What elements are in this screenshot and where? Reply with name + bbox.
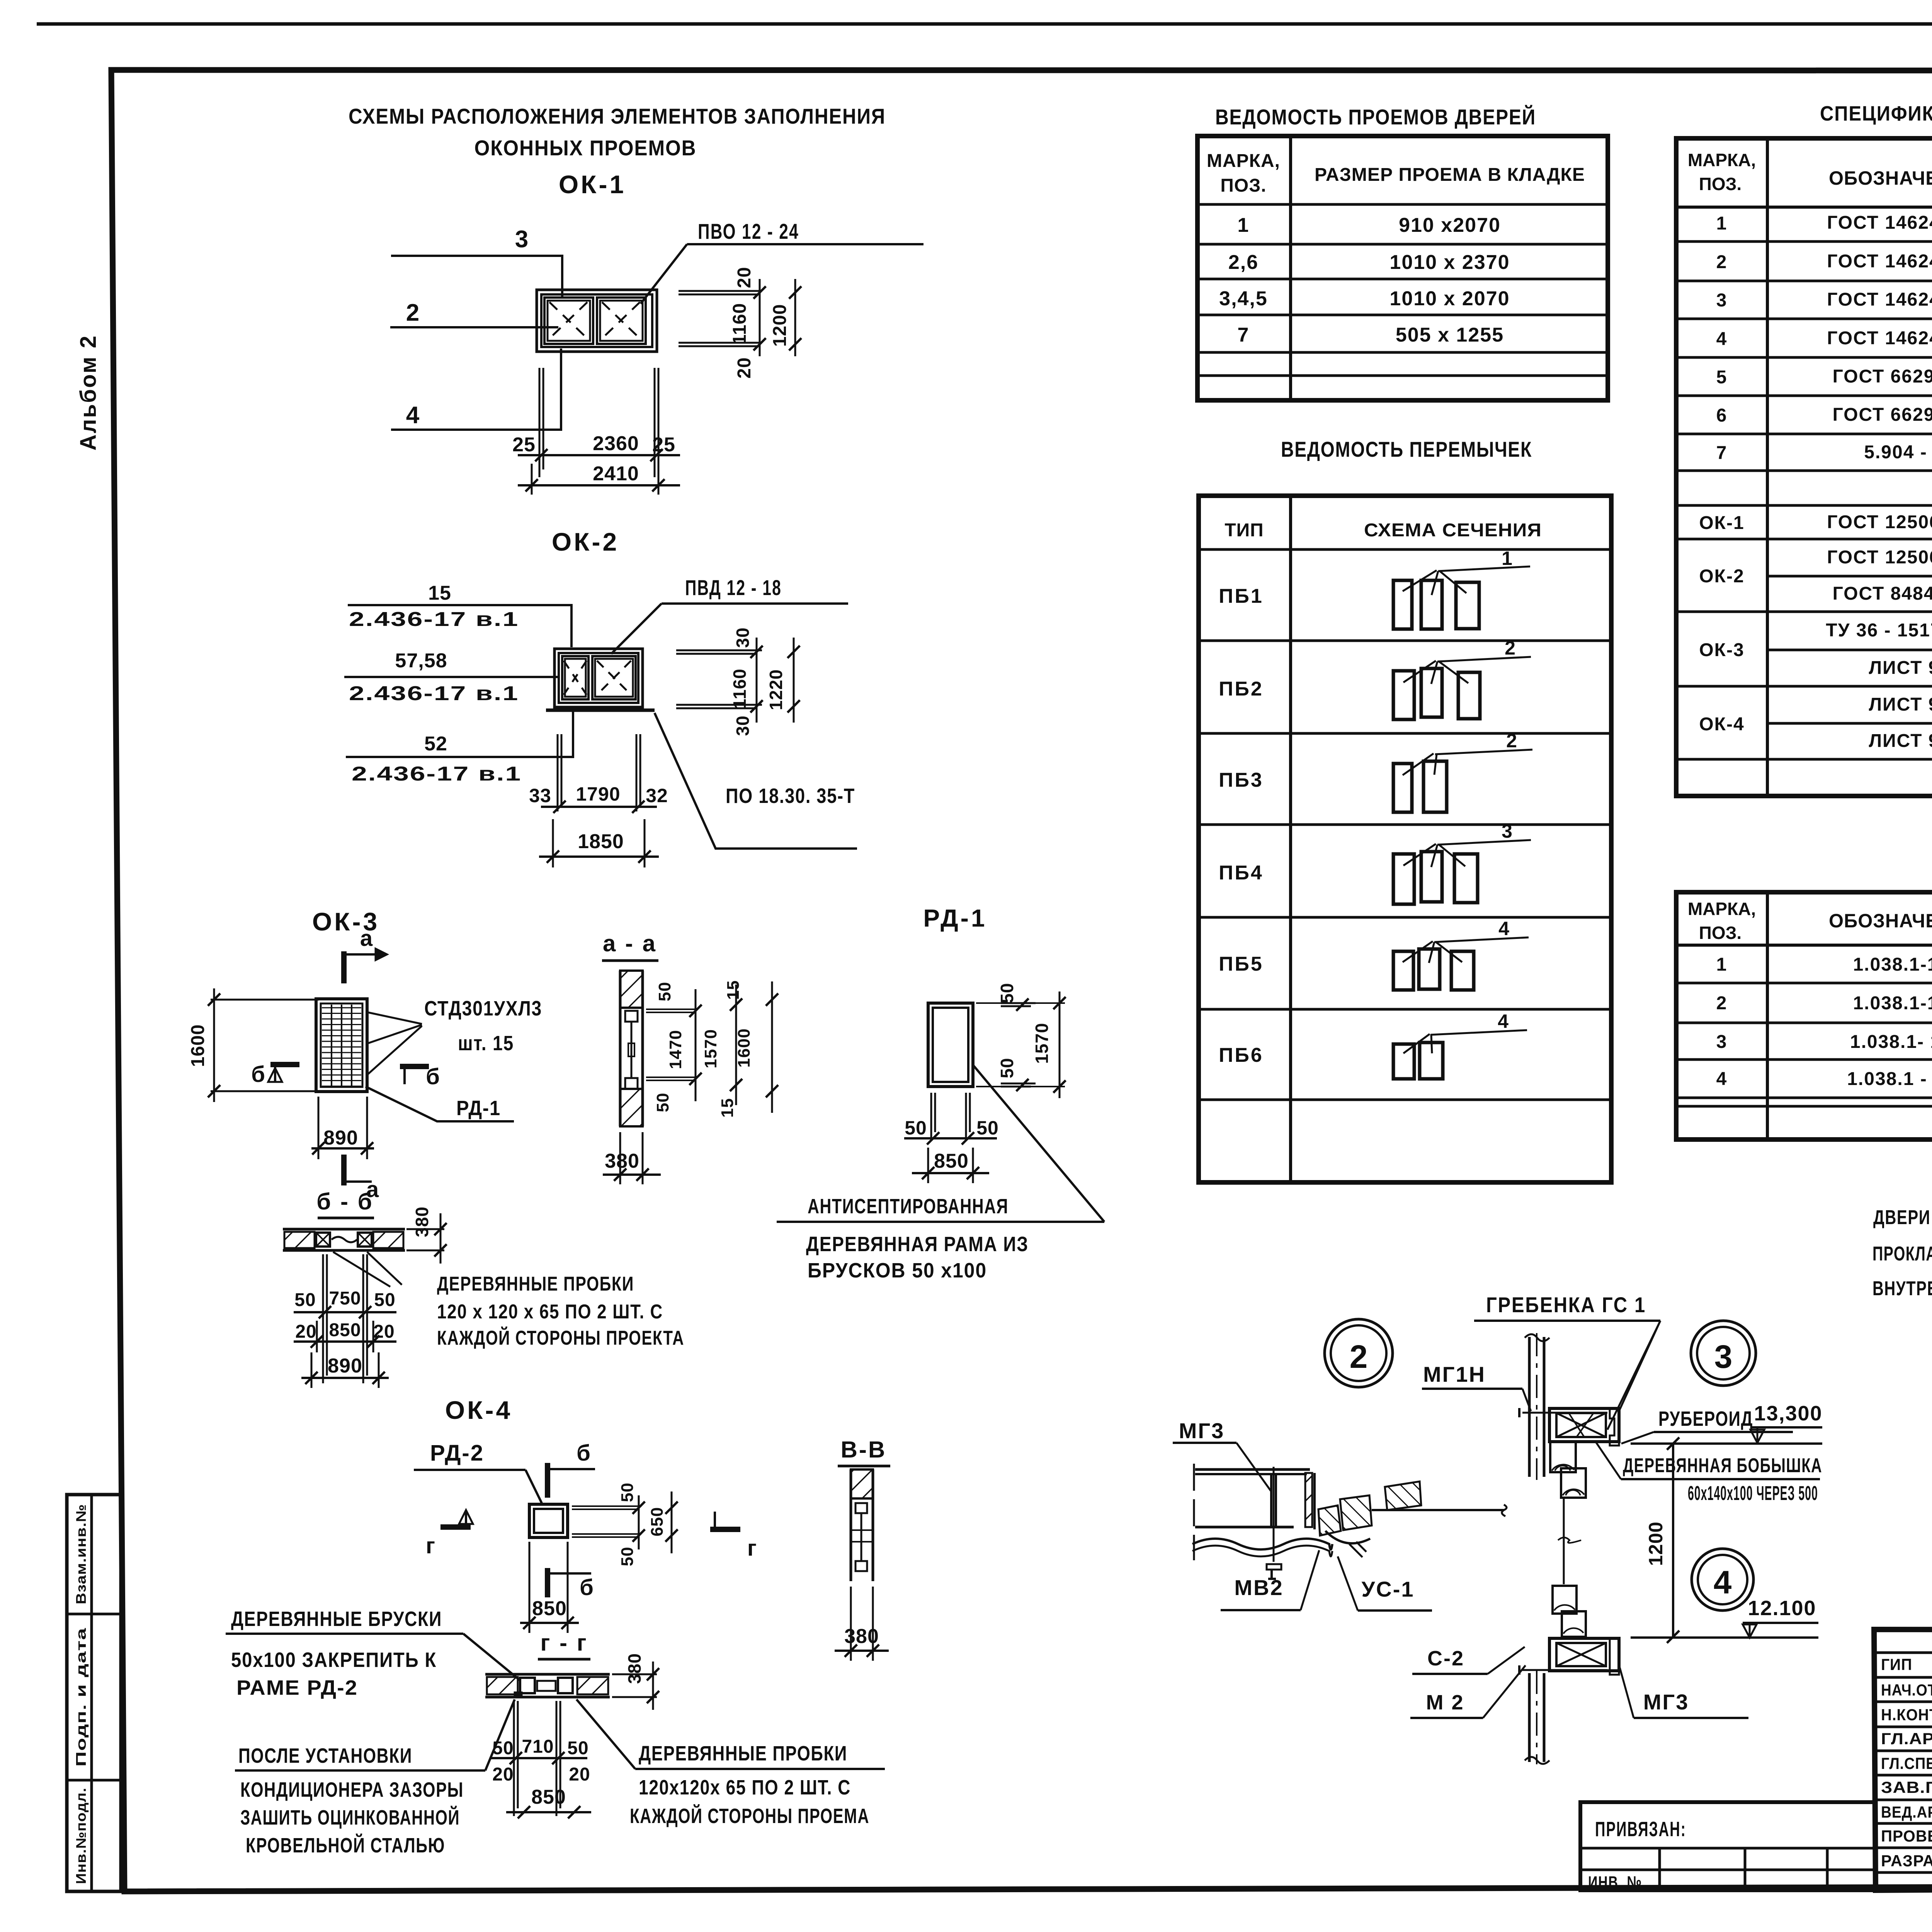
- table: vedomost peremychek: [1199, 496, 1611, 1182]
- svg-text:850: 850: [329, 1320, 361, 1340]
- svg-text:ГОСТ 14624 - 84: ГОСТ 14624 - 84: [1827, 213, 1932, 233]
- svg-text:7: 7: [1716, 443, 1728, 463]
- detail circle 2: [1325, 1319, 1393, 1387]
- svg-text:50: 50: [653, 1093, 672, 1112]
- svg-text:15: 15: [724, 980, 743, 1000]
- svg-text:ИНВ. №: ИНВ. №: [1588, 1873, 1642, 1892]
- svg-text:РУБЕРОИД: РУБЕРОИД: [1658, 1407, 1753, 1430]
- svg-text:КАЖДОЙ СТОРОНЫ ПРОЕМА: КАЖДОЙ СТОРОНЫ ПРОЕМА: [630, 1804, 869, 1828]
- svg-text:2410: 2410: [593, 463, 639, 485]
- dimension 890 below grate: [311, 1097, 374, 1159]
- svg-text:50: 50: [294, 1290, 316, 1310]
- label M2: [1410, 1665, 1526, 1718]
- label S-2: [1412, 1647, 1525, 1674]
- section mark b top (OK-4): [548, 1440, 595, 1498]
- label derevyannaya bobyshka: [1596, 1442, 1822, 1505]
- svg-text:3: 3: [1716, 1032, 1728, 1052]
- svg-text:б: б: [251, 1062, 265, 1087]
- svg-text:ВЕДОМОСТЬ ПЕРЕМЫЧЕК: ВЕДОМОСТЬ ПЕРЕМЫЧЕК: [1281, 437, 1532, 461]
- window OK-2 frame: [546, 649, 655, 710]
- svg-text:ОК-1: ОК-1: [1699, 513, 1744, 533]
- svg-text:380: 380: [624, 1653, 645, 1684]
- svg-text:50: 50: [567, 1738, 588, 1759]
- svg-text:20: 20: [734, 357, 755, 378]
- louvre grate OK-3 plan: [316, 999, 367, 1092]
- leader 2: [390, 299, 558, 327]
- section mark b (left): [251, 1062, 299, 1087]
- svg-text:Взам.инв.№: Взам.инв.№: [73, 1504, 89, 1604]
- svg-text:СТД301УХЛ3: СТД301УХЛ3: [424, 997, 542, 1020]
- svg-text:ПБ5: ПБ5: [1219, 953, 1264, 975]
- svg-text:ДЕРЕВЯННЫЕ БРУСКИ: ДЕРЕВЯННЫЕ БРУСКИ: [231, 1607, 442, 1631]
- section b-b drawing: [283, 1229, 405, 1250]
- svg-text:890: 890: [323, 1127, 358, 1149]
- svg-text:1200: 1200: [770, 304, 790, 347]
- svg-text:ГОСТ 14624 - 84: ГОСТ 14624 - 84: [1827, 328, 1932, 349]
- notes wooden bars (left texts): [226, 1607, 520, 1699]
- note about doors pos.5: [1872, 1206, 1932, 1300]
- scheme PB6: [1393, 1010, 1527, 1079]
- svg-text:60х140х100 ЧЕРЕЗ 500: 60х140х100 ЧЕРЕЗ 500: [1688, 1482, 1818, 1505]
- svg-text:ТИП: ТИП: [1225, 520, 1264, 541]
- scheme PB5: [1393, 918, 1529, 990]
- dimension 380 (g-g): [612, 1653, 659, 1710]
- section mark g left: [426, 1510, 473, 1558]
- left stamp boxes: [67, 1495, 121, 1891]
- svg-text:1.038.1- 1.1: 1.038.1- 1.1: [1850, 1032, 1932, 1052]
- svg-text:380: 380: [605, 1150, 639, 1172]
- svg-text:ДВЕРИ ПОЗ. 5 (ДЛЯ ЭЛЕКТРОП: ДВЕРИ ПОЗ. 5 (ДЛЯ ЭЛЕКТРОПОМЕЩЕНИЯ ) ВЫП…: [1873, 1206, 1932, 1229]
- svg-text:ДЕРЕВЯННЫЕ ПРОБКИ: ДЕРЕВЯННЫЕ ПРОБКИ: [437, 1273, 634, 1295]
- svg-text:МАРКА,: МАРКА,: [1688, 899, 1756, 919]
- svg-text:380: 380: [412, 1206, 432, 1237]
- svg-text:г - г: г - г: [540, 1630, 588, 1656]
- svg-text:12.100: 12.100: [1748, 1597, 1816, 1620]
- svg-text:ВЕД.АРХ.: ВЕД.АРХ.: [1881, 1803, 1932, 1821]
- svg-text:2360: 2360: [593, 432, 639, 455]
- svg-text:2: 2: [1350, 1338, 1368, 1375]
- svg-text:б - б: б - б: [316, 1189, 373, 1214]
- dimensions 50/710/50 20/20 850 below g-g: [491, 1701, 591, 1818]
- section mark a (top): [344, 926, 389, 983]
- detail circle 3: [1691, 1321, 1756, 1386]
- svg-text:РД-1: РД-1: [456, 1097, 501, 1120]
- svg-text:2: 2: [1716, 993, 1728, 1014]
- svg-text:МГ3: МГ3: [1643, 1690, 1689, 1714]
- RD-1 dimensions 50/1570/50: [976, 983, 1066, 1098]
- svg-text:ЗАВ.ГР.: ЗАВ.ГР.: [1881, 1778, 1932, 1796]
- svg-text:15: 15: [428, 582, 451, 604]
- bar cross-section square (OK-4): [529, 1504, 568, 1537]
- scheme PB3: [1393, 730, 1532, 812]
- svg-text:ЛИСТ 9: ЛИСТ 9: [1869, 694, 1932, 715]
- svg-text:1470: 1470: [666, 1030, 685, 1069]
- table: specifikaciya elementov: [1676, 138, 1932, 796]
- dimension 1200 (details): [1645, 1437, 1679, 1643]
- svg-text:120х120х 65 ПО 2 ШТ. С: 120х120х 65 ПО 2 ШТ. С: [639, 1776, 851, 1799]
- note after installation (left texts): [235, 1699, 515, 1857]
- svg-text:РД-1: РД-1: [923, 904, 987, 932]
- label RD-1 leader: [366, 1087, 514, 1121]
- svg-text:ПБ1: ПБ1: [1219, 585, 1264, 607]
- svg-text:1790: 1790: [576, 783, 620, 805]
- svg-text:3: 3: [1714, 1338, 1733, 1375]
- svg-text:ОБОЗНАЧЕНИЕ: ОБОЗНАЧЕНИЕ: [1829, 167, 1932, 189]
- elevation 12.100: [1631, 1597, 1818, 1638]
- a-a dimensions 50/15/1470/1570/1600: [646, 980, 778, 1118]
- svg-text:С-2: С-2: [1427, 1647, 1464, 1670]
- svg-text:50: 50: [997, 1058, 1017, 1078]
- OK-4 right dimensions 50/650/50: [572, 1483, 678, 1566]
- svg-text:850: 850: [934, 1150, 969, 1172]
- svg-text:1600: 1600: [735, 1028, 753, 1068]
- svg-text:ГЛ.СПЕЦ.: ГЛ.СПЕЦ.: [1881, 1754, 1932, 1772]
- svg-text:2.436-17 в.1: 2.436-17 в.1: [349, 608, 519, 631]
- svg-text:50: 50: [492, 1738, 514, 1759]
- svg-text:2: 2: [1505, 637, 1515, 659]
- svg-text:52: 52: [424, 733, 447, 755]
- elevation 13,300: [1631, 1402, 1823, 1444]
- svg-text:2.436-17 в.1: 2.436-17 в.1: [349, 682, 519, 705]
- svg-text:ОК-2: ОК-2: [552, 527, 619, 556]
- svg-text:ПО 18.30. 35-Т: ПО 18.30. 35-Т: [726, 784, 855, 808]
- svg-text:ПБ2: ПБ2: [1219, 678, 1264, 700]
- svg-text:ПРОВЕР.: ПРОВЕР.: [1881, 1827, 1932, 1845]
- svg-text:3: 3: [1716, 290, 1728, 311]
- svg-text:1010 х 2370: 1010 х 2370: [1389, 251, 1510, 274]
- svg-text:б: б: [580, 1575, 594, 1600]
- svg-text:ПРИВЯЗАН:: ПРИВЯЗАН:: [1595, 1818, 1686, 1841]
- svg-text:МВ2: МВ2: [1234, 1575, 1283, 1600]
- svg-text:а: а: [360, 926, 373, 951]
- svg-text:1850: 1850: [578, 830, 624, 853]
- svg-text:РАМЕ РД-2: РАМЕ РД-2: [236, 1676, 358, 1699]
- note wooden plugs (right texts): [577, 1699, 885, 1828]
- leader 3: [391, 226, 562, 297]
- svg-text:5.904 - 4: 5.904 - 4: [1864, 442, 1932, 463]
- svg-text:ГОСТ 14624 - 84: ГОСТ 14624 - 84: [1827, 251, 1932, 272]
- svg-text:15: 15: [718, 1098, 737, 1118]
- note wooden plugs (b-b): [333, 1252, 684, 1349]
- svg-text:г: г: [747, 1536, 757, 1561]
- svg-text:57,58: 57,58: [395, 650, 447, 672]
- svg-text:4: 4: [1716, 1069, 1728, 1089]
- svg-text:РАЗМЕР ПРОЕМА В КЛАДКЕ: РАЗМЕР ПРОЕМА В КЛАДКЕ: [1315, 165, 1585, 185]
- svg-text:УС-1: УС-1: [1361, 1577, 1414, 1601]
- OK-1 right dimension 20/1160/1200/20: [679, 267, 801, 378]
- section mark b (right): [400, 1064, 440, 1089]
- svg-text:4: 4: [1498, 1010, 1509, 1032]
- section a-a label: [602, 930, 658, 961]
- sheet top border line: [37, 22, 1932, 26]
- svg-text:25: 25: [512, 434, 536, 456]
- svg-text:20: 20: [295, 1321, 316, 1342]
- svg-text:Альбом 2: Альбом 2: [76, 335, 101, 451]
- label MG3 (detail 4): [1620, 1668, 1748, 1718]
- svg-text:2.436-17 в.1: 2.436-17 в.1: [352, 763, 522, 785]
- svg-text:1200: 1200: [1645, 1521, 1667, 1566]
- svg-text:ГОСТ 6629 - 88: ГОСТ 6629 - 88: [1833, 405, 1932, 425]
- svg-text:ТУ 36 - 1517 - 84: ТУ 36 - 1517 - 84: [1826, 620, 1932, 641]
- frame RD-1 drawing: [928, 1003, 973, 1087]
- title block: [1874, 1629, 1932, 1890]
- svg-text:32: 32: [646, 785, 668, 806]
- svg-text:ГОСТ 12506 - 81: ГОСТ 12506 - 81: [1827, 512, 1932, 532]
- dimension 850 (OK-4 plan): [520, 1542, 579, 1633]
- svg-text:Инв.№подл.: Инв.№подл.: [73, 1787, 89, 1884]
- section mark a (bottom): [344, 1155, 379, 1202]
- svg-text:ОКОННЫХ ПРОЕМОВ: ОКОННЫХ ПРОЕМОВ: [474, 136, 697, 160]
- svg-text:1010 х 2070: 1010 х 2070: [1389, 287, 1510, 310]
- label MG1N: [1422, 1362, 1531, 1411]
- svg-text:ЗАШИТЬ ОЦИНКОВАННОЙ: ЗАШИТЬ ОЦИНКОВАННОЙ: [240, 1806, 460, 1829]
- detail 2 drawing: [1192, 1464, 1507, 1579]
- svg-text:1.038.1 - 1.1: 1.038.1 - 1.1: [1847, 1069, 1932, 1089]
- svg-text:7: 7: [1238, 324, 1250, 346]
- svg-text:ПВД 12 - 18: ПВД 12 - 18: [685, 575, 782, 600]
- scheme PB4: [1393, 820, 1531, 904]
- svg-text:3: 3: [515, 226, 528, 253]
- svg-text:КОНДИЦИОНЕРА ЗАЗОРЫ: КОНДИЦИОНЕРА ЗАЗОРЫ: [240, 1778, 464, 1801]
- section V-V label: [838, 1437, 890, 1466]
- svg-text:50: 50: [997, 983, 1017, 1003]
- svg-text:50: 50: [655, 982, 674, 1002]
- svg-text:2: 2: [1716, 252, 1728, 272]
- svg-text:750: 750: [329, 1288, 361, 1309]
- label STD301 UHL3 sht.15: [368, 997, 542, 1074]
- svg-text:1220: 1220: [766, 669, 786, 710]
- table: specifikaciya peremychek: [1676, 892, 1932, 1139]
- svg-text:ДЕРЕВЯННЫЕ ПРОБКИ: ДЕРЕВЯННЫЕ ПРОБКИ: [639, 1742, 847, 1765]
- svg-text:Подп. и дата: Подп. и дата: [73, 1628, 89, 1767]
- svg-text:50х100 ЗАКРЕПИТЬ К: 50х100 ЗАКРЕПИТЬ К: [231, 1648, 437, 1672]
- svg-text:ГРЕБЕНКА ГС 1: ГРЕБЕНКА ГС 1: [1486, 1293, 1646, 1317]
- label PVO 12-24: [641, 219, 923, 304]
- svg-text:ПВО 12 - 24: ПВО 12 - 24: [698, 219, 799, 243]
- svg-text:НАЧ.ОТД.: НАЧ.ОТД.: [1881, 1681, 1932, 1699]
- svg-text:1: 1: [1238, 214, 1250, 236]
- section g-g drawing: [485, 1674, 610, 1698]
- svg-text:1.038.1-1.1: 1.038.1-1.1: [1853, 993, 1932, 1014]
- label Grebenka GS1: [1474, 1293, 1660, 1430]
- svg-text:ГОСТ 14624 - 84: ГОСТ 14624 - 84: [1827, 289, 1932, 310]
- svg-text:ОК-4: ОК-4: [1699, 714, 1744, 735]
- svg-text:4: 4: [1714, 1564, 1732, 1600]
- svg-text:СХЕМЫ РАСПОЛОЖЕНИЯ ЭЛЕМЕНТОВ: СХЕМЫ РАСПОЛОЖЕНИЯ ЭЛЕМЕНТОВ ЗАПОЛНЕНИЯ: [349, 104, 886, 128]
- svg-text:910 х2070: 910 х2070: [1399, 214, 1501, 236]
- svg-text:710: 710: [522, 1736, 554, 1757]
- label MV2: [1221, 1550, 1319, 1610]
- svg-text:ВЕДОМОСТЬ ПРОЕМОВ ДВЕРЕЙ: ВЕДОМОСТЬ ПРОЕМОВ ДВЕРЕЙ: [1215, 105, 1536, 129]
- OK-2 bottom dimension 33/1790/32 and 1850: [529, 734, 668, 867]
- label Ruberoid: [1621, 1407, 1793, 1444]
- svg-text:4: 4: [1716, 329, 1728, 349]
- window OK-1 frame: [537, 290, 657, 352]
- svg-text:4: 4: [406, 402, 420, 429]
- section V-V drawing: [851, 1469, 873, 1581]
- RD-1 dimensions 50/50/850 below: [904, 1093, 999, 1183]
- section a-a drawing (wall jamb): [620, 971, 643, 1126]
- svg-text:ПРОКЛАДКАМИ, САМОЗАПИРАЮЩИЕСЯ,: ПРОКЛАДКАМИ, САМОЗАПИРАЮЩИЕСЯ, ОТКРЫВАЮЩ…: [1872, 1243, 1932, 1265]
- label PO 18.30.35-T: [655, 713, 857, 849]
- scheme PB1: [1393, 548, 1530, 629]
- svg-text:50: 50: [905, 1117, 927, 1139]
- svg-text:ОК-3: ОК-3: [1699, 640, 1744, 660]
- svg-text:ПБ4: ПБ4: [1219, 862, 1264, 884]
- note antiseptic wooden frame (RD-1): [777, 1065, 1104, 1282]
- svg-text:850: 850: [531, 1786, 566, 1808]
- detail 4 drawing: [1519, 1586, 1619, 1764]
- label US-1: [1338, 1556, 1432, 1611]
- leader 57,58 / 2.436-17 v.1: [344, 650, 558, 705]
- svg-text:20: 20: [492, 1764, 514, 1785]
- svg-text:ПБ3: ПБ3: [1219, 769, 1264, 791]
- svg-text:2: 2: [1506, 730, 1517, 752]
- section b-b label: [316, 1189, 374, 1218]
- svg-text:1600: 1600: [188, 1024, 208, 1067]
- svg-text:ЛИСТ 9: ЛИСТ 9: [1869, 658, 1932, 678]
- svg-text:ОК-2: ОК-2: [1699, 566, 1744, 587]
- svg-text:шт. 15: шт. 15: [458, 1032, 514, 1055]
- svg-text:КРОВЕЛЬНОЙ СТАЛЬЮ: КРОВЕЛЬНОЙ СТАЛЬЮ: [246, 1833, 445, 1857]
- svg-text:РАЗРАБ.: РАЗРАБ.: [1881, 1852, 1932, 1870]
- svg-text:Н.КОНТР.: Н.КОНТР.: [1881, 1706, 1932, 1724]
- svg-text:1: 1: [1716, 954, 1728, 975]
- svg-text:890: 890: [328, 1355, 362, 1377]
- svg-text:СХЕМА СЕЧЕНИЯ: СХЕМА СЕЧЕНИЯ: [1364, 520, 1542, 541]
- section g-g label: [538, 1630, 590, 1659]
- svg-text:ГОСТ 8484 - 82: ГОСТ 8484 - 82: [1833, 583, 1932, 604]
- detail circle 4: [1692, 1549, 1753, 1611]
- OK-2 right dimension 30/1160/1220/30: [676, 627, 800, 736]
- svg-text:505 х 1255: 505 х 1255: [1396, 324, 1504, 346]
- middle chain between details: [1558, 1498, 1581, 1584]
- privyazan box: [1580, 1802, 1876, 1892]
- dimension 380 (V-V): [835, 1587, 889, 1661]
- leader 15 / 2.436-17 v.1: [348, 582, 571, 647]
- svg-text:ПОЗ.: ПОЗ.: [1699, 923, 1742, 943]
- dimension 1600 (left): [188, 988, 319, 1102]
- svg-text:АНТИСЕПТИРОВАННАЯ: АНТИСЕПТИРОВАННАЯ: [808, 1195, 1009, 1218]
- svg-text:1160: 1160: [730, 303, 750, 345]
- svg-text:50: 50: [618, 1547, 637, 1566]
- svg-text:МАРКА,: МАРКА,: [1688, 150, 1756, 170]
- a-a dimension 380 below: [603, 1132, 661, 1184]
- svg-text:ЛИСТ 9: ЛИСТ 9: [1869, 731, 1932, 751]
- svg-text:МГ1Н: МГ1Н: [1423, 1362, 1486, 1386]
- svg-text:СПЕЦИФИКАЦИЯ ЭЛЕМЕНТОВ ЗАПОЛ: СПЕЦИФИКАЦИЯ ЭЛЕМЕНТОВ ЗАПОЛНЕНИЯ ПРОЕМО…: [1820, 102, 1932, 125]
- svg-text:1.038.1-1.1: 1.038.1-1.1: [1853, 954, 1932, 975]
- svg-text:ПОЗ.: ПОЗ.: [1220, 175, 1266, 196]
- window sill line: [546, 709, 655, 712]
- section mark b bottom (OK-4): [548, 1568, 594, 1600]
- svg-text:ВНУТРЕННЕЙ СТОРОНЫ .: ВНУТРЕННЕЙ СТОРОНЫ .: [1872, 1277, 1932, 1300]
- svg-text:33: 33: [529, 785, 551, 806]
- svg-text:5: 5: [1716, 367, 1728, 388]
- svg-text:20: 20: [734, 267, 755, 288]
- svg-text:РД-2: РД-2: [430, 1440, 484, 1466]
- svg-text:120 х 120 х 65 ПО 2 ШТ. С: 120 х 120 х 65 ПО 2 ШТ. С: [437, 1301, 663, 1323]
- svg-text:30: 30: [733, 715, 753, 736]
- label RD-2 with leader: [414, 1440, 542, 1503]
- svg-text:25: 25: [652, 434, 675, 456]
- svg-text:1570: 1570: [1032, 1023, 1052, 1064]
- label PVD 12-18: [611, 575, 848, 654]
- svg-text:ГИП: ГИП: [1881, 1655, 1912, 1673]
- svg-text:ОК-4: ОК-4: [445, 1396, 512, 1424]
- scheme PB2: [1393, 637, 1531, 719]
- svg-text:б: б: [577, 1440, 590, 1466]
- svg-text:ОБОЗНАЧЕНИЕ: ОБОЗНАЧЕНИЕ: [1829, 910, 1932, 932]
- svg-text:а - а: а - а: [603, 930, 657, 956]
- detail 3 drawing: [1519, 1333, 1619, 1498]
- svg-text:50: 50: [976, 1117, 999, 1139]
- leader 52 / 2.436-17 v.1: [346, 708, 573, 785]
- svg-text:650: 650: [648, 1507, 667, 1536]
- svg-text:ДЕРЕВЯННАЯ БОБЫШКА: ДЕРЕВЯННАЯ БОБЫШКА: [1623, 1454, 1822, 1477]
- section mark g right: [710, 1512, 757, 1561]
- svg-text:КАЖДОЙ СТОРОНЫ ПРОЕКТА: КАЖДОЙ СТОРОНЫ ПРОЕКТА: [437, 1327, 684, 1349]
- svg-text:ПОСЛЕ УСТАНОВКИ: ПОСЛЕ УСТАНОВКИ: [238, 1744, 412, 1767]
- svg-text:МГ3: МГ3: [1179, 1418, 1225, 1443]
- dimension 380 (b-b): [406, 1206, 447, 1264]
- svg-text:г: г: [426, 1533, 435, 1558]
- svg-text:2,6: 2,6: [1228, 251, 1259, 274]
- svg-text:ПОЗ.: ПОЗ.: [1699, 174, 1742, 194]
- svg-text:1: 1: [1502, 548, 1512, 569]
- svg-text:ГЛ.АРХ.: ГЛ.АРХ.: [1881, 1730, 1932, 1748]
- svg-text:4: 4: [1498, 918, 1509, 939]
- svg-text:В-В: В-В: [841, 1437, 887, 1463]
- svg-text:1: 1: [1716, 213, 1728, 234]
- svg-text:М 2: М 2: [1426, 1691, 1464, 1714]
- svg-text:МАРКА,: МАРКА,: [1207, 151, 1280, 171]
- leader 4: [391, 349, 561, 430]
- svg-text:50: 50: [618, 1483, 637, 1502]
- svg-text:ГОСТ 6629 - 88: ГОСТ 6629 - 88: [1833, 366, 1932, 387]
- svg-text:850: 850: [532, 1597, 567, 1620]
- svg-text:ГОСТ 12506 - 81: ГОСТ 12506 - 81: [1827, 547, 1932, 568]
- svg-text:3,4,5: 3,4,5: [1219, 287, 1268, 310]
- svg-text:3: 3: [1502, 820, 1512, 842]
- svg-text:ПБ6: ПБ6: [1219, 1044, 1264, 1066]
- svg-text:ОК-1: ОК-1: [559, 170, 626, 199]
- label MG3 (detail 2): [1173, 1418, 1271, 1492]
- svg-text:1570: 1570: [701, 1029, 720, 1068]
- dimensions 50/750/50 20/850/20 890 below b-b: [294, 1254, 396, 1388]
- table: vedomost proyomov dverey: [1197, 136, 1608, 400]
- svg-text:1160: 1160: [730, 668, 750, 709]
- svg-text:13,300: 13,300: [1754, 1402, 1822, 1425]
- svg-text:БРУСКОВ 50 х100: БРУСКОВ 50 х100: [808, 1259, 987, 1282]
- svg-text:ДЕРЕВЯННАЯ РАМА ИЗ: ДЕРЕВЯННАЯ РАМА ИЗ: [806, 1233, 1029, 1256]
- svg-text:2: 2: [406, 299, 419, 326]
- svg-text:30: 30: [733, 627, 753, 648]
- OK-1 bottom dimension 25/2360/25 and 2410: [512, 368, 680, 495]
- svg-text:6: 6: [1716, 405, 1728, 426]
- svg-text:50: 50: [374, 1290, 395, 1310]
- svg-text:20: 20: [569, 1764, 590, 1785]
